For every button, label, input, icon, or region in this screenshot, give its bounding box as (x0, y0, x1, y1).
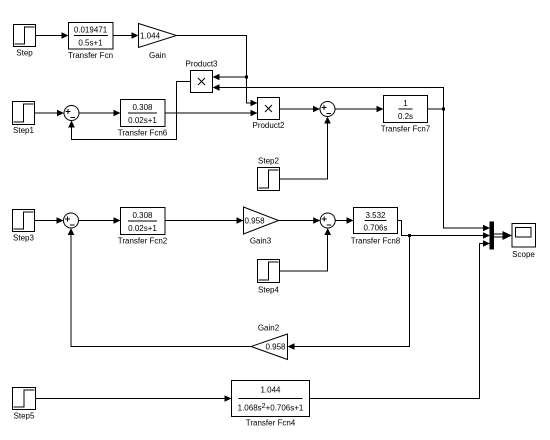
svg-text:0.308: 0.308 (132, 211, 153, 220)
svg-text:Step1: Step1 (13, 126, 34, 135)
svg-text:Transfer Fcn2: Transfer Fcn2 (118, 237, 168, 246)
wire junction up to Product3 second input (213, 84, 444, 109)
svg-text:0.5s+1: 0.5s+1 (78, 39, 103, 48)
svg-text:Gain: Gain (149, 51, 166, 60)
svg-text:Transfer Fcn8: Transfer Fcn8 (351, 237, 401, 246)
step source Step3 (13, 210, 35, 243)
wire Sum4 to Transfer Fcn8 (335, 217, 353, 224)
wire Transfer Fcn4 output to Mux third input (310, 240, 491, 398)
wire Transfer Fcn6 to Product2 second input (165, 110, 258, 117)
svg-text:3.532: 3.532 (365, 211, 386, 220)
wire Sum3 to Transfer Fcn2 (79, 217, 121, 224)
step source Step1 (13, 102, 35, 136)
gain Gain3 (244, 207, 279, 246)
svg-text:Product2: Product2 (252, 121, 285, 130)
mux Mux (490, 222, 495, 250)
transfer function Transfer Fcn2 (118, 208, 168, 246)
gain Gain2 (251, 324, 288, 360)
svg-text:Product3: Product3 (185, 60, 218, 69)
wire Mux to Scope (bus) (494, 231, 512, 240)
transfer function Transfer Fcn (68, 23, 113, 61)
svg-text:0.02s+1: 0.02s+1 (128, 116, 157, 125)
svg-text:Step2: Step2 (258, 157, 279, 166)
gain Gain (139, 24, 177, 61)
svg-text:0.02s+1: 0.02s+1 (128, 224, 157, 233)
wire Product2 to Sum2 (280, 106, 321, 113)
scope Scope (512, 224, 536, 260)
wire Gain2 output to Sum3 minus input (68, 228, 251, 347)
wire Product3 output to Sum1 minus input (68, 82, 190, 140)
svg-text:0.706s: 0.706s (363, 224, 387, 233)
wire Step2 to Sum2 minus input (280, 117, 331, 180)
svg-text:0.019471: 0.019471 (74, 26, 108, 35)
wire Gain3 to Sum4 (279, 217, 321, 224)
wire junction down to Mux first input (444, 109, 491, 231)
svg-text:0.958: 0.958 (245, 217, 266, 226)
svg-text:Step: Step (16, 49, 33, 58)
step source Step2 (258, 157, 280, 191)
wire Gain to Product2 first input (via vertical at x=246) (177, 36, 258, 107)
step source Step (14, 25, 36, 58)
svg-text:Gain3: Gain3 (250, 237, 272, 246)
transfer function Transfer Fcn7 (381, 96, 431, 134)
wire Step4 to Sum4 minus input (280, 228, 332, 271)
wire Transfer Fcn8 output to Mux second input (398, 221, 491, 239)
junction dot on Transfer Fcn8 output line (408, 234, 411, 237)
svg-text:0.308: 0.308 (132, 103, 153, 112)
product Product2 (252, 98, 285, 131)
svg-text:1.044: 1.044 (260, 386, 281, 395)
wire Step5 to Transfer Fcn4 (36, 395, 232, 402)
svg-text:1.044: 1.044 (140, 32, 161, 41)
svg-text:Transfer Fcn4: Transfer Fcn4 (246, 419, 296, 428)
wire junction to Product3 first input (213, 74, 247, 81)
transfer function Transfer Fcn6 (118, 100, 168, 138)
svg-text:Step3: Step3 (13, 234, 34, 243)
svg-text:Transfer Fcn7: Transfer Fcn7 (381, 125, 431, 134)
wire Step3 to Sum3 (35, 217, 64, 224)
svg-text:1.068s2+0.706s+1: 1.068s2+0.706s+1 (238, 403, 304, 413)
wire Sum1 to Transfer Fcn6 (79, 110, 121, 117)
svg-text:Gain2: Gain2 (258, 324, 280, 333)
wire Transfer Fcn2 to Gain3 (165, 217, 244, 224)
sum Sum4 (320, 213, 335, 228)
wire Transfer Fcn7 output to junction (428, 108, 444, 110)
svg-text:Transfer Fcn6: Transfer Fcn6 (118, 129, 168, 138)
svg-text:Scope: Scope (512, 250, 535, 259)
step source Step4 (258, 260, 280, 295)
wire Step to Transfer Fcn (36, 32, 69, 39)
svg-text:1: 1 (403, 99, 408, 108)
wire junction down to Gain2 input (288, 236, 410, 350)
sum Sum3 (64, 213, 79, 228)
junction dot at Transfer Fcn7 output (442, 108, 445, 111)
wire Step1 to Sum1 (35, 110, 65, 117)
wire Transfer Fcn to Gain (113, 32, 139, 39)
junction dot on gain line feeding Product3 (245, 76, 248, 79)
product Product3 (185, 60, 218, 93)
sum Sum2 (320, 102, 335, 117)
step source Step5 (13, 388, 36, 421)
svg-text:0.958: 0.958 (265, 343, 286, 352)
sum Sum1 (64, 106, 79, 121)
svg-text:Step5: Step5 (14, 412, 35, 421)
transfer function Transfer Fcn8 (351, 208, 401, 246)
svg-text:Step4: Step4 (258, 286, 279, 295)
wire Sum2 to Transfer Fcn7 (335, 106, 384, 113)
svg-text:Transfer Fcn: Transfer Fcn (68, 51, 113, 60)
svg-text:0.2s: 0.2s (398, 112, 413, 121)
transfer function Transfer Fcn4 (232, 381, 310, 428)
